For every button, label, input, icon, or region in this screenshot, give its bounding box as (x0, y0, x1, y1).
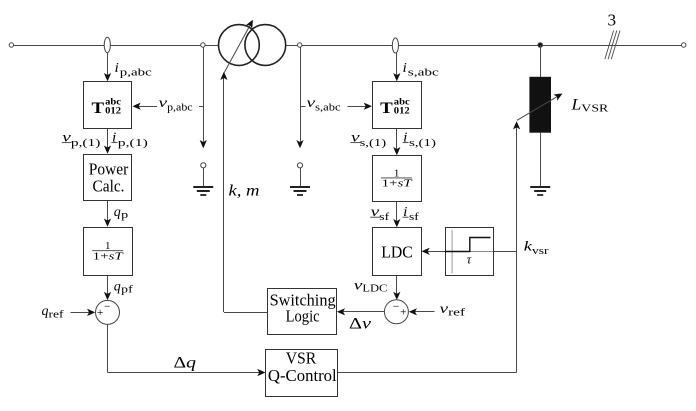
svg-text:LDC: LDC (381, 243, 413, 262)
svg-text:−: − (104, 301, 111, 313)
svg-text:Logic: Logic (286, 307, 320, 326)
svg-text:1+sT: 1+sT (93, 250, 124, 262)
svg-text:VSR: VSR (286, 349, 317, 368)
svg-text:+: + (97, 307, 104, 319)
svg-text:Δq: Δq (174, 354, 197, 371)
svg-text:1+sT: 1+sT (382, 178, 413, 190)
svg-text:τ: τ (467, 253, 472, 267)
svg-text:Calc.: Calc. (93, 176, 125, 195)
svg-text:−: − (393, 301, 400, 313)
svg-text:T: T (380, 100, 393, 117)
svg-text:Q-Control: Q-Control (268, 366, 337, 385)
svg-text:T: T (92, 100, 105, 117)
svg-text:3: 3 (608, 11, 617, 30)
svg-text:k, m: k, m (229, 182, 260, 199)
svg-text:Δv: Δv (349, 316, 371, 333)
svg-text:012: 012 (394, 107, 410, 117)
svg-text:+: + (400, 306, 407, 318)
svg-text:012: 012 (105, 107, 121, 117)
